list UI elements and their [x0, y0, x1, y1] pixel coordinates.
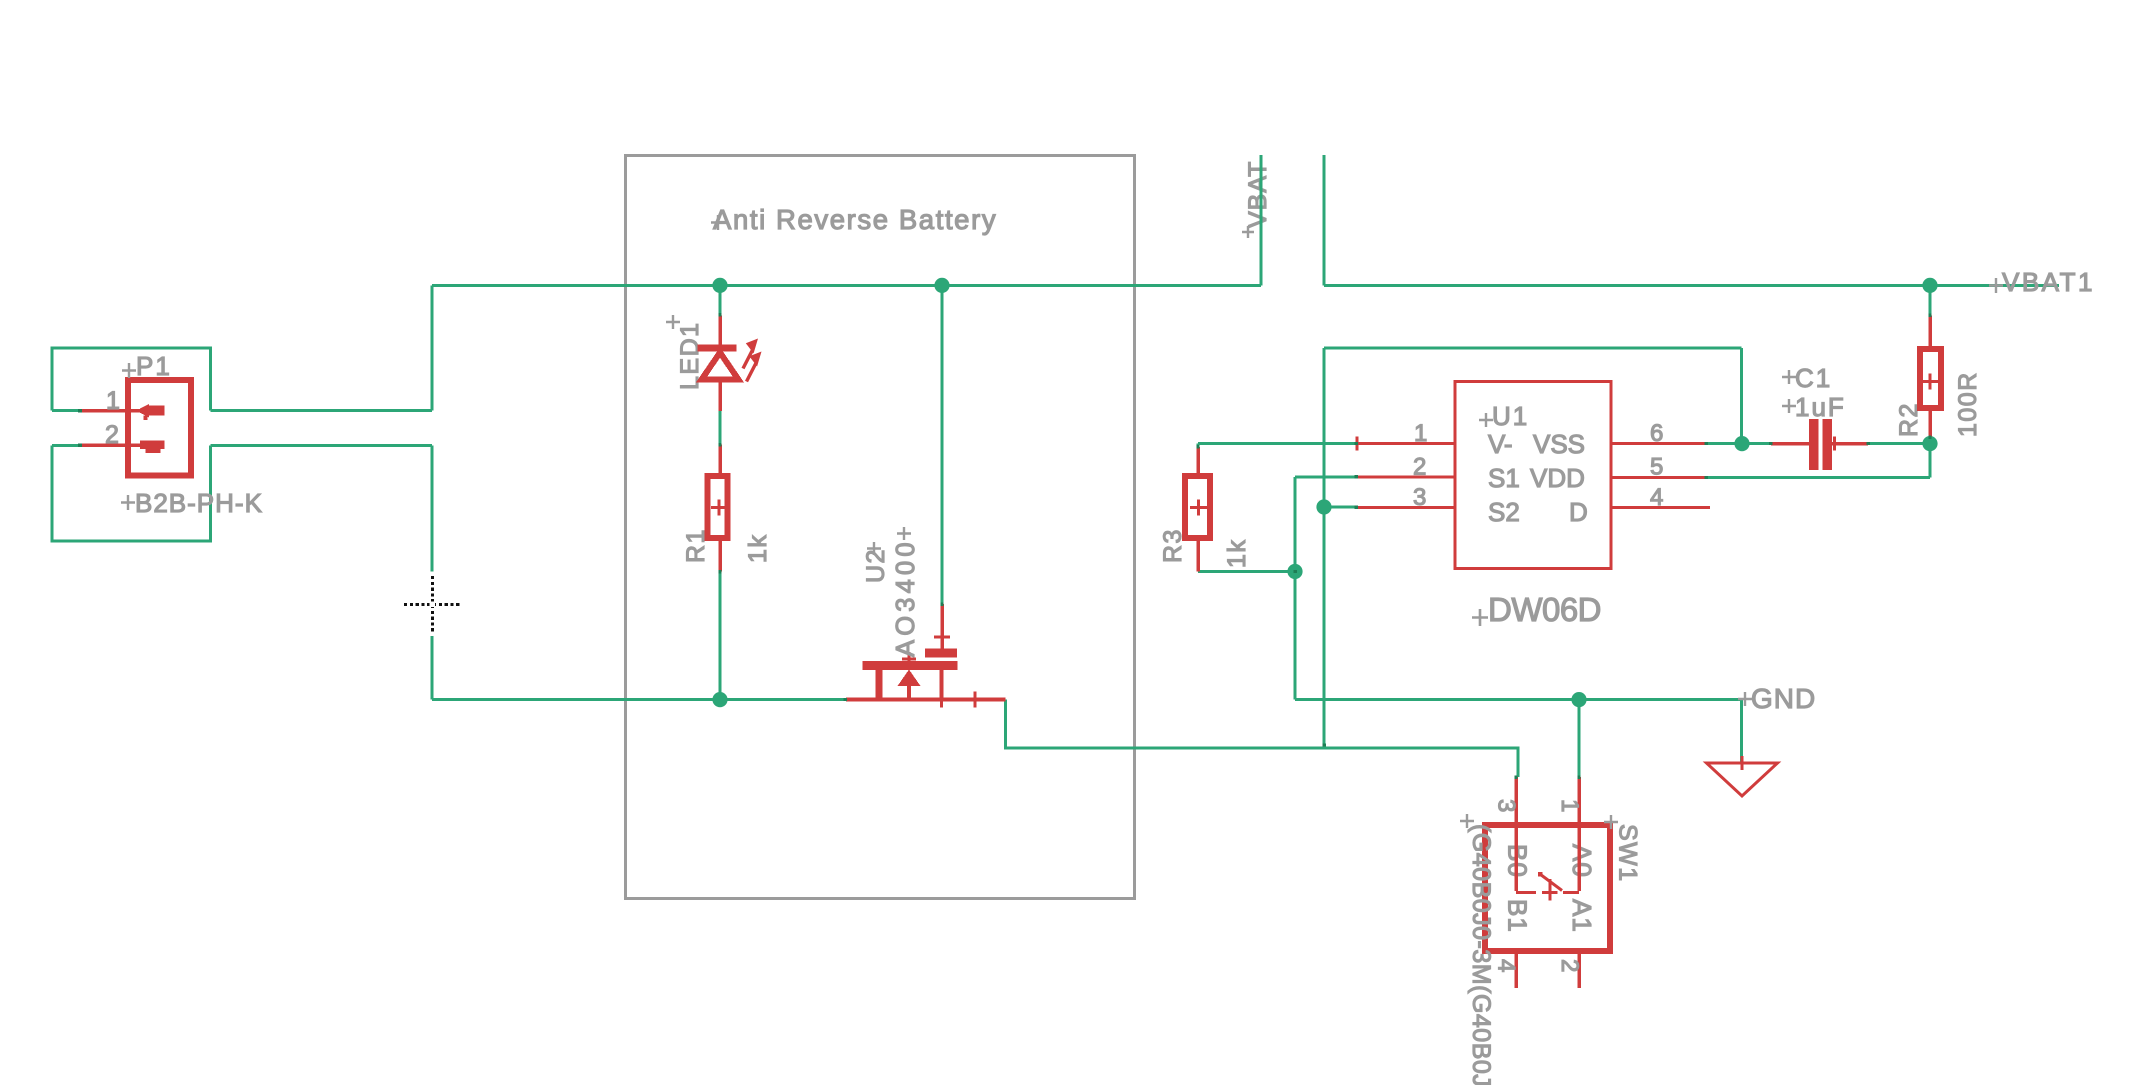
wire C1 right to R2 node — [1868, 442, 1930, 445]
svg-text:S1: S1 — [1488, 463, 1520, 493]
SW1 lever — [1538, 872, 1562, 901]
svg-text:2: 2 — [105, 421, 119, 449]
U1 pin 2 line — [1357, 475, 1454, 478]
wire P1 pin2 to vertical — [211, 444, 433, 447]
capacitor C1 — [1771, 419, 1868, 470]
wire bottom rail to U2 — [432, 698, 846, 701]
node GND label — [1738, 683, 1816, 714]
junction dot rail-U2 drain — [934, 278, 949, 293]
U1 value label DW06D — [1472, 591, 1601, 628]
junction dot pin6 C1 — [1734, 436, 1749, 451]
svg-text:U2: U2 — [862, 548, 890, 583]
svg-text:D: D — [1569, 497, 1588, 527]
svg-text:4: 4 — [1650, 484, 1663, 511]
LED1 emission arrows — [743, 339, 762, 382]
svg-text:3: 3 — [1493, 799, 1520, 812]
wire rail to P1 pin1 — [431, 285, 434, 410]
ground symbol — [1707, 756, 1778, 796]
wire U1 pin5 VDD — [1706, 476, 1930, 479]
wire U2 source to SW1 pin3 — [1006, 700, 1519, 777]
svg-text:1k: 1k — [744, 534, 772, 563]
U1 pin 4 line — [1613, 506, 1711, 509]
svg-text:1uF: 1uF — [1795, 392, 1846, 422]
svg-text:3: 3 — [1413, 484, 1426, 511]
svg-text:S2: S2 — [1488, 497, 1520, 527]
resistor R3 — [1185, 447, 1210, 572]
svg-text:2: 2 — [1413, 454, 1426, 481]
svg-text:B2B-PH-K: B2B-PH-K — [135, 488, 263, 518]
svg-text:Anti Reverse Battery: Anti Reverse Battery — [713, 204, 997, 235]
wire P1 pin1 to vertical — [211, 409, 433, 412]
U2 reference label — [862, 542, 890, 583]
U1 reference label — [1479, 401, 1529, 431]
resistor R2 — [1920, 316, 1941, 438]
junction dot rail-LED1 — [712, 278, 727, 293]
C1 value label 1uF — [1782, 392, 1846, 422]
wire U1 pin2 S1 — [1295, 475, 1357, 478]
wire U1 pin6 to C1 node — [1706, 442, 1771, 445]
resistor R1 — [708, 445, 728, 572]
wire SW1 pin1 up to GND rail — [1578, 700, 1581, 777]
svg-text:6: 6 — [1650, 420, 1663, 447]
svg-text:AO3400: AO3400 — [892, 538, 920, 657]
svg-text:U1: U1 — [1492, 401, 1529, 431]
svg-text:A1: A1 — [1567, 899, 1597, 933]
svg-text:P1: P1 — [136, 351, 172, 381]
wire GND stub down — [1740, 700, 1743, 763]
wire GND rail — [1295, 698, 1742, 701]
SW1 reference label — [1604, 815, 1642, 883]
wire LED1 to R1 — [719, 411, 722, 445]
svg-text:V-: V- — [1488, 429, 1513, 459]
node VBAT1 label — [1989, 267, 2095, 297]
wire VBAT stub up — [1260, 155, 1263, 285]
svg-text:VBAT: VBAT — [1244, 161, 1272, 228]
U1 pin 1 line — [1357, 437, 1454, 451]
wire U2 drain from rail — [941, 285, 944, 604]
U1 pin 5 line — [1613, 476, 1708, 479]
wire R2 node down — [1929, 444, 1932, 478]
wire VBAT1 rail right — [1324, 284, 2059, 287]
wire S1 vertical to GND rail — [1294, 477, 1297, 700]
svg-text:DW06D: DW06D — [1488, 591, 1601, 628]
connector P1 — [81, 380, 191, 476]
svg-text:2: 2 — [1556, 959, 1583, 972]
P1 reference label — [122, 351, 172, 381]
wire vertical to bottom rail lower part — [431, 636, 434, 700]
junction dot S2 — [1316, 499, 1331, 514]
svg-text:4: 4 — [1493, 959, 1520, 972]
C1 reference label — [1782, 363, 1832, 393]
svg-text:GND: GND — [1751, 683, 1816, 714]
diode LED1 — [698, 316, 739, 412]
wire top loop horizontal — [1324, 347, 1742, 350]
wire R3 top corner — [1197, 444, 1200, 447]
wire S2 vertical long — [1323, 348, 1326, 748]
svg-text:(G40B0J0-3M(G40B0J0: (G40B0J0-3M(G40B0J0 — [1467, 824, 1495, 1085]
svg-text:C1: C1 — [1795, 363, 1832, 393]
cursor crosshair — [403, 575, 462, 634]
U1 pin 6 line — [1613, 442, 1708, 445]
svg-text:A0: A0 — [1567, 844, 1597, 878]
svg-text:1: 1 — [1556, 799, 1583, 812]
switch SW1 — [1485, 777, 1610, 988]
dark overlap marks wire-pin joints — [78, 313, 1930, 779]
node VBAT label — [1242, 161, 1272, 238]
wire LED1 anode from rail — [719, 285, 722, 315]
svg-text:100R: 100R — [1954, 371, 1982, 437]
svg-text:VBAT1: VBAT1 — [2002, 267, 2095, 297]
LED1 reference label — [666, 315, 704, 390]
wire P1 pin1 loop — [52, 348, 211, 411]
svg-text:VDD: VDD — [1530, 463, 1585, 493]
wire P1 pin1 left stub — [52, 409, 81, 412]
wire R2 top from rail — [1929, 285, 1932, 315]
svg-text:1: 1 — [106, 387, 120, 415]
wire VBAT1 stub up — [1323, 155, 1326, 285]
wire R1 to bottom rail — [719, 572, 722, 700]
U2 value label AO3400 — [892, 527, 920, 657]
junction dot bottom rail R1 — [712, 692, 727, 707]
IC U1 DW06D box — [1455, 382, 1611, 569]
wire vertical to bottom rail upper part — [431, 445, 434, 571]
transistor U2 AO3400 — [846, 604, 1006, 708]
wire top loop down to pin6 node — [1740, 348, 1743, 444]
junction dot GND rail SW1 — [1571, 692, 1586, 707]
gray frame box Anti Reverse Battery — [626, 156, 1135, 899]
svg-text:1k: 1k — [1223, 539, 1251, 568]
wire U1 pin3 S2 stub — [1324, 506, 1357, 509]
svg-text:VSS: VSS — [1533, 429, 1585, 459]
svg-text:SW1: SW1 — [1614, 824, 1642, 883]
junction dot rail R2 — [1922, 278, 1937, 293]
junction dot C1 R2 — [1922, 436, 1937, 451]
wire R3 top to U1 pin1 — [1198, 442, 1357, 445]
wire R3 bottom horizontal — [1198, 570, 1295, 573]
wire P1 pin2 left stub — [52, 444, 81, 447]
junction dot R3 bottom — [1287, 564, 1302, 579]
wire VBAT rail left — [432, 284, 1261, 287]
svg-text:5: 5 — [1650, 454, 1663, 481]
P1 value label B2B-PH-K — [121, 488, 263, 518]
SW1 value label part number — [1460, 814, 1495, 1085]
svg-text:B1: B1 — [1503, 899, 1533, 933]
U1 pin 3 line — [1357, 506, 1454, 509]
svg-text:1: 1 — [1414, 420, 1427, 447]
wire P1 pin2 loop — [52, 445, 211, 541]
